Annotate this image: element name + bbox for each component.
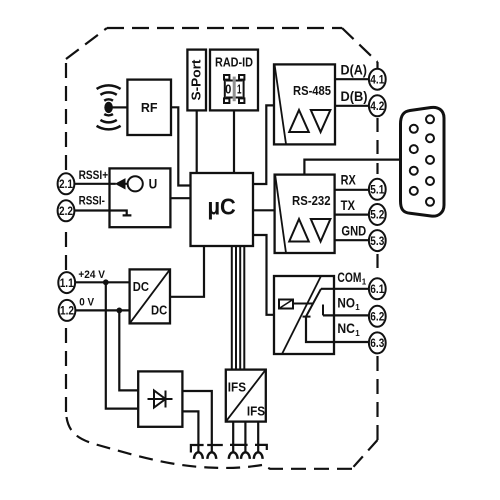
wire RSSI+ (75, 183, 116, 185)
wire RAD-ID to uC (233, 110, 235, 173)
svg-text:IFS: IFS (228, 379, 246, 394)
relay coil (279, 300, 293, 309)
wire 0V rail to diode box (119, 310, 138, 390)
wire +24V (76, 281, 130, 283)
dashed device boundary top-left diagonal (66, 28, 107, 59)
svg-text:+24 V: +24 V (78, 269, 105, 281)
svg-text:5.1: 5.1 (370, 183, 384, 197)
antenna symbol (97, 85, 121, 129)
svg-text:6.2: 6.2 (370, 310, 384, 324)
wires uC to IFS bus (231, 246, 233, 370)
svg-text:RS-485: RS-485 (293, 84, 331, 98)
svg-text:DC: DC (133, 279, 150, 294)
wire TX (335, 214, 368, 216)
wire diode box to ground right lower (182, 411, 198, 452)
svg-text:IFS: IFS (247, 403, 265, 418)
ground hook 2 (207, 452, 216, 459)
svg-text:S-Port: S-Port (190, 59, 204, 101)
DC/DC converter box (130, 269, 170, 323)
internal signal ground in RSSI box (110, 211, 132, 216)
junction dot +24V (103, 279, 109, 285)
ground hook 4 (241, 452, 250, 459)
dashed device boundary top edge (107, 27, 342, 29)
IFS connector box (226, 370, 266, 422)
svg-text:4.1: 4.1 (370, 72, 384, 86)
wire D(B) (335, 105, 369, 107)
svg-text:1: 1 (237, 83, 242, 97)
dashed device boundary bottom edge (262, 465, 352, 469)
wire antenna to RF (112, 106, 127, 108)
svg-text:5.2: 5.2 (370, 208, 384, 222)
svg-text:4.2: 4.2 (370, 99, 384, 113)
wire 0V (76, 309, 130, 311)
ground hook 5 (254, 452, 263, 459)
svg-text:5.3: 5.3 (370, 234, 384, 248)
wire uC to RS-232 (253, 209, 275, 211)
wire DC/DC to uC (170, 246, 204, 297)
terminal 2.2 (58, 200, 75, 221)
svg-text:0: 0 (225, 83, 231, 97)
terminal 2.1 (58, 173, 75, 194)
svg-text:U: U (149, 177, 158, 192)
wire RSSI- (75, 209, 110, 211)
RAD-ID box (210, 50, 258, 111)
wires IFS to ground (232, 422, 234, 453)
diode D1 (148, 398, 173, 400)
DB9 connector shell (401, 107, 445, 216)
svg-text:NC: NC (337, 320, 355, 336)
terminal 6.3 (369, 332, 386, 353)
wire NO1 (323, 314, 368, 316)
svg-text:RSSI+: RSSI+ (79, 168, 109, 182)
svg-text:RF: RF (141, 101, 158, 115)
svg-text:RAD-ID: RAD-ID (215, 56, 253, 70)
wire D(A) (335, 78, 369, 80)
ground comb left (191, 445, 223, 453)
RAD-ID thumbwheel icon (233, 77, 236, 102)
terminal 5.3 (369, 230, 386, 251)
wire uC to relay coil (253, 235, 274, 315)
svg-text:D(B): D(B) (341, 89, 368, 104)
svg-text:NO: NO (337, 295, 355, 311)
RF box (127, 80, 171, 135)
svg-text:D(A): D(A) (341, 62, 368, 77)
svg-text:1: 1 (362, 278, 367, 287)
NO contact stub (322, 305, 324, 316)
wire RSSI box to uC (170, 197, 190, 199)
RSSI output box with voltmeter (110, 168, 171, 227)
svg-text:1: 1 (355, 303, 360, 312)
wire RX (335, 189, 368, 191)
RS-485 box U3 (274, 64, 335, 144)
svg-text:GND: GND (341, 223, 366, 239)
uC box (191, 173, 254, 246)
terminal 4.2 (369, 95, 386, 116)
svg-text:µC: µC (207, 194, 235, 220)
svg-text:DC: DC (151, 302, 168, 317)
junction dot 0V (116, 308, 122, 314)
S-Port box (187, 50, 206, 111)
wire uC to DB9 connector (304, 160, 400, 175)
terminal 5.1 (369, 179, 386, 200)
wire RF to uC (171, 107, 191, 185)
dashed device boundary right edge segments (376, 62, 378, 69)
svg-text:RSSI-: RSSI- (79, 193, 105, 207)
svg-text:6.1: 6.1 (370, 282, 384, 296)
relay box (274, 276, 334, 354)
svg-text:2.1: 2.1 (59, 177, 73, 191)
terminal 1.2 (59, 300, 76, 321)
svg-text:COM: COM (337, 269, 361, 285)
diode box (138, 371, 182, 426)
wire +24V rail to diode box (106, 282, 138, 408)
dashed device boundary bottom-left curve (66, 412, 262, 468)
svg-text:RX: RX (341, 171, 357, 187)
dashed device boundary top-right diagonal (342, 28, 378, 62)
wire S-Port to uC (196, 110, 198, 173)
terminal 6.2 (369, 306, 386, 327)
svg-text:6.3: 6.3 (370, 336, 384, 350)
wire diode box to ground right upper (182, 391, 211, 452)
wire RS-485 to uC (253, 105, 274, 184)
svg-text:2.2: 2.2 (59, 204, 73, 218)
svg-text:RS-232: RS-232 (292, 194, 331, 208)
dashed device boundary bottom-right diagonal (352, 440, 378, 469)
svg-text:1.2: 1.2 (60, 304, 74, 318)
svg-text:1.1: 1.1 (60, 276, 74, 290)
DB9 pin holes (410, 125, 418, 133)
ground hook 1 (194, 452, 203, 459)
ground hook 3 (229, 452, 238, 459)
relay switch blade (306, 289, 321, 317)
terminal 4.1 (369, 69, 386, 90)
dashed device boundary left edge segments (65, 323, 67, 412)
RS-232 box (275, 175, 335, 253)
svg-text:1: 1 (355, 329, 360, 338)
terminal 6.1 (369, 278, 386, 299)
wire GND (335, 239, 368, 241)
terminal 1.1 (58, 272, 75, 293)
terminal 5.2 (369, 204, 386, 225)
ground comb right (230, 445, 267, 450)
wire COM1 (321, 288, 368, 290)
svg-text:TX: TX (341, 197, 356, 213)
wire NC1 (306, 317, 368, 343)
svg-text:0 V: 0 V (79, 296, 94, 308)
